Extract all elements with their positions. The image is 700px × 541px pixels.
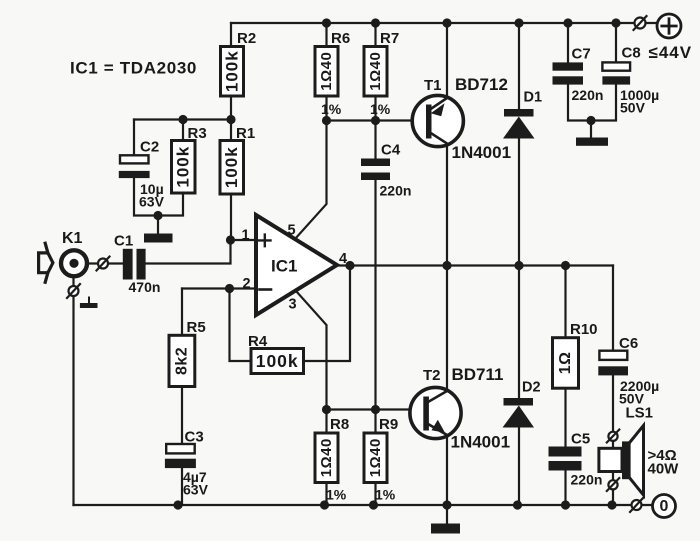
- svg-text:R6: R6: [331, 30, 350, 47]
- resistor R2: [221, 30, 257, 96]
- svg-text:100k: 100k: [174, 146, 193, 188]
- svg-text:1Ω40: 1Ω40: [318, 52, 335, 91]
- svg-text:LS1: LS1: [626, 405, 654, 422]
- svg-text:220n: 220n: [572, 87, 604, 103]
- junction: node R2/R1: [226, 115, 235, 124]
- svg-text:C6: C6: [619, 335, 638, 352]
- wire: R7 leads: [374, 23, 376, 121]
- junction: output node at D1/D2: [514, 261, 523, 270]
- op-amp U1 IC1: [242, 215, 348, 315]
- wire: LS1 lower terminal to bottom rail: [612, 489, 614, 505]
- wire: R2 bottom lead to node R2/R1: [230, 96, 232, 120]
- junction: C8 on +rail: [611, 18, 620, 27]
- svg-text:R7: R7: [380, 30, 399, 47]
- wire: C2 bottom lead to ground node: [134, 178, 158, 216]
- wire: R1 bottom lead to pin1 node: [230, 194, 232, 240]
- ground below bottom rail: [431, 524, 460, 534]
- junction: R9 on 0V rail: [369, 500, 378, 509]
- junction: pin2 node: [225, 284, 234, 293]
- wire: pin2 node down to R4 left: [230, 289, 252, 362]
- wire: base row to T2: [327, 408, 425, 410]
- diode D2 1N4001: [451, 380, 541, 452]
- junction: output node at R10: [561, 261, 570, 270]
- svg-text:1%: 1%: [375, 487, 396, 503]
- svg-text:2: 2: [243, 276, 251, 292]
- junction: D1 cathode on +rail: [514, 18, 523, 27]
- wire: pin2 node to R5: [182, 287, 230, 289]
- svg-text:≤44V: ≤44V: [649, 43, 693, 62]
- svg-text:1%: 1%: [370, 101, 391, 117]
- wire: R6 leads: [325, 23, 327, 121]
- wire: ground stem at C2/R3: [157, 216, 159, 234]
- wire: node row C2-R3-R1 at y119.5: [134, 118, 231, 120]
- svg-text:R4: R4: [248, 333, 268, 350]
- wire: pin3 to node R8 top: [296, 291, 327, 410]
- svg-text:D1: D1: [524, 90, 543, 106]
- wire: LS1 box to lower terminal: [612, 472, 614, 481]
- terminal circle before +44V: [634, 16, 647, 30]
- junction: pin1 node: [226, 235, 235, 244]
- junction: R7 top on +rail: [371, 18, 380, 27]
- wire: C8 leads: [591, 23, 616, 121]
- wire: T1 emitter to output to T2: [446, 143, 448, 391]
- wire: C7 leads: [568, 23, 591, 121]
- svg-text:C4: C4: [381, 142, 401, 159]
- svg-text:C2: C2: [140, 139, 159, 156]
- svg-text:C3: C3: [185, 429, 204, 446]
- junction: node R9 top / C4: [371, 405, 380, 414]
- wire: ground stem below C7/C8: [590, 121, 592, 138]
- junction: node R6 bottom / pin5: [322, 116, 331, 125]
- wire: C6 to LS1 upper terminal: [612, 375, 614, 431]
- wire: C2 top lead: [133, 120, 135, 156]
- resistor R6: [315, 30, 350, 117]
- wire: D1 column: [518, 23, 520, 266]
- connector K1: [39, 230, 87, 282]
- svg-text:8k2: 8k2: [173, 347, 190, 375]
- junction: C7/C8 ground node: [586, 116, 595, 125]
- wire: K1 shield to lower terminal: [72, 279, 74, 287]
- wire: C3 to bottom rail: [181, 468, 183, 505]
- svg-text:50V: 50V: [620, 100, 646, 116]
- junction: output node at T1/T2 emitters: [442, 261, 451, 270]
- resistor R1: [220, 125, 255, 194]
- resistor R4: [248, 333, 304, 374]
- svg-text:R10: R10: [570, 321, 598, 338]
- wire: C4 top lead: [374, 121, 376, 159]
- junction: R8 on 0V rail: [320, 500, 329, 509]
- wire: C5 to bottom rail: [564, 471, 566, 505]
- wire: R8 leads: [325, 410, 327, 506]
- svg-text:T1: T1: [424, 77, 442, 94]
- junction: node R8 top / pin3: [322, 405, 331, 414]
- resistor R10: [553, 321, 598, 388]
- speaker LS1: [599, 405, 679, 496]
- terminal circle below LS1: [607, 478, 620, 491]
- wire: pin5 to node R6 bottom: [295, 121, 327, 240]
- wire: R10 top lead: [564, 266, 566, 338]
- svg-text:IC1 = TDA2030: IC1 = TDA2030: [70, 59, 197, 78]
- junction: C3 on 0V rail: [173, 500, 182, 509]
- transistor T1 BD712: [412, 75, 508, 147]
- wire: R10 to C5: [564, 388, 566, 447]
- wire: output rail from IC1 pin4: [337, 264, 613, 266]
- svg-text:220n: 220n: [571, 472, 603, 488]
- wire: terminal to C1: [108, 262, 123, 264]
- capacitor C2: [119, 139, 165, 210]
- svg-text:1Ω: 1Ω: [557, 352, 574, 375]
- svg-text:R2: R2: [237, 30, 256, 47]
- wire: R3 top lead: [182, 120, 184, 141]
- svg-text:R1: R1: [236, 125, 255, 142]
- wire: T2 emitter to bottom rail: [446, 435, 448, 505]
- wire: R5 to C3: [181, 387, 183, 444]
- junction: T1 collector on +rail: [442, 18, 451, 27]
- svg-text:R8: R8: [330, 416, 349, 433]
- ground at C2/R3: [144, 234, 173, 243]
- wire: R5 top lead: [181, 289, 183, 336]
- svg-text:1%: 1%: [326, 487, 347, 503]
- svg-text:63V: 63V: [183, 482, 209, 498]
- svg-text:D2: D2: [522, 380, 541, 396]
- svg-text:BD712: BD712: [455, 75, 508, 94]
- capacitor C5: [549, 431, 603, 488]
- capacitor C6: [598, 335, 659, 407]
- wire: 0V bottom rail: [74, 504, 653, 506]
- resistor R5: [169, 319, 206, 387]
- terminal circle before 0V: [630, 498, 643, 512]
- capacitor C3: [165, 429, 209, 498]
- svg-text:C1: C1: [114, 233, 133, 250]
- svg-text:C8: C8: [622, 45, 641, 62]
- svg-text:IC1: IC1: [271, 257, 297, 276]
- wire: K1 shield down to bottom rail: [72, 296, 74, 505]
- svg-text:R3: R3: [188, 125, 207, 142]
- svg-text:5: 5: [288, 223, 296, 239]
- svg-text:1Ω40: 1Ω40: [367, 438, 384, 477]
- junction: C5 on 0V rail: [561, 500, 570, 509]
- svg-text:C7: C7: [572, 46, 591, 63]
- svg-text:R9: R9: [379, 416, 398, 433]
- wire: R4 right to output node: [304, 266, 351, 362]
- wire: +44V top supply rail: [231, 22, 657, 24]
- terminal circle at K1 signal: [97, 257, 110, 271]
- svg-text:220n: 220n: [380, 183, 412, 199]
- wire: base row to T1: [327, 119, 425, 121]
- svg-text:T2: T2: [423, 367, 441, 384]
- wire: K1 pin to terminal: [79, 262, 99, 264]
- junction: C2/R3 ground node: [153, 211, 162, 220]
- terminal circle at K1 shield: [67, 284, 80, 298]
- svg-text:BD711: BD711: [452, 365, 504, 384]
- junction: node R3 top: [178, 115, 187, 124]
- svg-text:1: 1: [242, 228, 250, 244]
- capacitor C8: [602, 45, 659, 116]
- junction: D2 anode on 0V rail: [513, 500, 522, 509]
- capacitor C7: [553, 46, 604, 104]
- wire: C6 top lead from output rail: [612, 266, 614, 351]
- wire: pin1 non-inverting input: [231, 239, 257, 241]
- ground below C7/C8: [576, 138, 608, 146]
- junction: T2 emitter on 0V rail: [442, 500, 451, 509]
- svg-text:1%: 1%: [321, 101, 342, 117]
- svg-text:470n: 470n: [129, 279, 161, 295]
- terminal circle above LS1: [607, 430, 620, 443]
- wire: R9 leads: [374, 410, 376, 506]
- junction: C7 on +rail: [563, 18, 572, 27]
- svg-text:0: 0: [660, 498, 669, 515]
- resistor R3: [172, 125, 207, 193]
- junction: output node at R4 feedback: [345, 261, 354, 270]
- +44V supply terminal: [649, 14, 693, 62]
- chassis ground mark at K1: [80, 298, 98, 309]
- wire: C4 bottom down to node R9 top (crosses output): [374, 180, 376, 410]
- svg-text:1Ω40: 1Ω40: [367, 52, 384, 91]
- wire: pin2 inverting input: [230, 287, 257, 289]
- wire: R3 bottom lead to ground node: [158, 193, 183, 216]
- svg-text:K1: K1: [62, 230, 83, 247]
- wire: D2 column: [518, 266, 520, 506]
- svg-text:1N4001: 1N4001: [452, 143, 512, 162]
- svg-text:1Ω40: 1Ω40: [318, 438, 335, 477]
- svg-text:3: 3: [289, 297, 297, 313]
- diode D1 1N4001: [452, 90, 543, 163]
- 0V terminal: [653, 495, 676, 518]
- wire: ground stem below bottom rail: [446, 505, 448, 524]
- resistor R9: [364, 416, 398, 503]
- svg-text:100k: 100k: [223, 50, 242, 92]
- wire: R2 top lead from rail: [230, 23, 232, 47]
- junction: LS1 on 0V rail: [607, 500, 616, 509]
- svg-text:R5: R5: [187, 319, 206, 336]
- svg-text:40W: 40W: [648, 461, 680, 478]
- wire: C1 to pin1 node: [146, 240, 231, 264]
- svg-text:100k: 100k: [256, 351, 299, 371]
- resistor R8: [315, 416, 349, 503]
- svg-text:1N4001: 1N4001: [451, 433, 511, 452]
- transistor T2 BD711: [410, 365, 504, 439]
- wire: R1 top lead: [230, 120, 232, 141]
- wire: LS1 terminal to box: [612, 441, 614, 448]
- capacitor C4: [361, 142, 411, 199]
- svg-text:63V: 63V: [139, 194, 165, 210]
- capacitor C1: [114, 233, 160, 296]
- junction: R6 top on +rail: [322, 18, 331, 27]
- svg-text:C5: C5: [571, 431, 590, 448]
- svg-text:100k: 100k: [222, 146, 241, 188]
- junction: node R7 bottom / C4: [371, 116, 380, 125]
- resistor R7: [364, 30, 399, 117]
- wire: T1 collector lead from rail: [446, 23, 448, 99]
